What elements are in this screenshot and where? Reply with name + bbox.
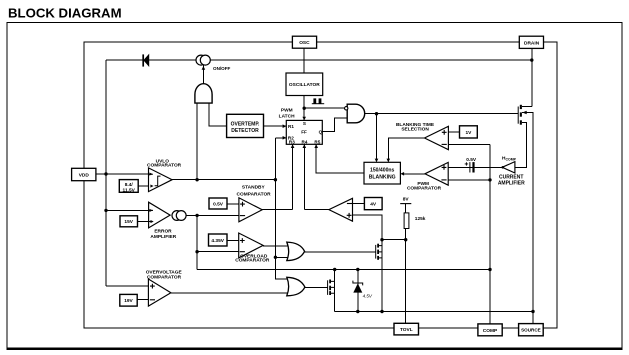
wire AND gate output to power MOSFET gate (y=113.7) [365, 113, 518, 115]
svg-text:ON/OFF: ON/OFF [213, 66, 231, 71]
wire blanking time selection output into blanking block [388, 138, 424, 161]
wire PWM comparator + input through 0.5V capacitor to current amplifier [448, 166, 502, 168]
arrow error amp top input [150, 209, 153, 212]
wire PWM comparator - input to COMP riser [448, 179, 490, 181]
wire VDD startup rail (y=60) from VDD riser to DRAIN column [106, 59, 532, 61]
svg-text:OVERTEMP.: OVERTEMP. [231, 122, 260, 128]
junction Q2 source on source bus [380, 310, 383, 313]
wire PWM comparator output into blanking block [401, 173, 425, 175]
polarity standby + [240, 202, 245, 207]
wire blanking time selection - input to COMP riser [448, 143, 490, 145]
pin box COMP [478, 324, 502, 336]
wire OSC pin to oscillator block [303, 48, 305, 74]
svg-text:AMPLIFIER: AMPLIFIER [150, 234, 176, 240]
main diagram boundary rectangle [84, 42, 557, 328]
wire error amplifier output to standby comparator - input [186, 214, 239, 216]
svg-text:OSC: OSC [299, 40, 310, 46]
junction zener top on COMP bus [356, 268, 359, 271]
wire overload comparator output to OR1 input [263, 245, 289, 247]
wire error amp sense input from VDD riser [106, 209, 149, 211]
arrow UVLO bottom input [150, 185, 153, 188]
junction error amp sense tap [104, 209, 107, 212]
polarity overload - [240, 251, 245, 253]
arrow into blanking from AND [375, 159, 379, 163]
junction gate stub on UVLO bus [195, 178, 198, 181]
junction R2 riser on UVLO bus [274, 178, 277, 181]
wire OR1 lower input tap from UVLO riser [275, 256, 289, 258]
value box 8.4/11.5V [119, 180, 138, 193]
junction Q3 drain on COMP bus [333, 268, 336, 271]
wire VDD net riser x=106 from startup rail down to overvoltage tap [105, 60, 107, 286]
wire VDD box to UVLO inverting input [96, 173, 149, 175]
wire source ground bus (y=311.5) [335, 311, 533, 313]
wire zener branch from COMP bus to source bus [357, 270, 359, 312]
svg-text:15V: 15V [124, 219, 133, 225]
wire OR1 output to Q2 gate [305, 251, 376, 253]
svg-text:ERROR: ERROR [154, 229, 172, 235]
wire UVLO reference input from 8.4/11.5V box [138, 185, 148, 187]
on/off controlled current source (double circle) [196, 55, 210, 65]
wire oscillator node to AND gate inverted input [304, 107, 344, 109]
PWM latch flip-flop box U2 [286, 120, 322, 144]
OR gate U12 [287, 242, 305, 261]
resistor R 125k [404, 213, 409, 229]
wire 4V comparator + input to 125k node [353, 215, 383, 240]
wire Q2 drain-source rail [381, 240, 383, 312]
polarity 4V comparator + [347, 213, 352, 218]
svg-text:19V: 19V [124, 298, 133, 304]
wire power MOSFET drain lead [522, 105, 532, 107]
svg-text:8V: 8V [403, 197, 410, 203]
wire UVLO comparator output bus (y=179.7) [172, 179, 275, 181]
polarity overload + [240, 238, 245, 243]
arrow into optocoupler from gate [202, 66, 206, 70]
svg-text:150/400ns: 150/400ns [370, 168, 395, 174]
svg-text:COMPARATOR: COMPARATOR [235, 258, 270, 264]
polarity overvoltage - [150, 299, 155, 301]
svg-text:0.5V: 0.5V [466, 157, 477, 163]
wire standby comparator output to latch R3 [262, 209, 292, 211]
arrow into latch R2 [283, 136, 287, 140]
junction COMP bus to COMP riser [488, 268, 491, 271]
svg-text:4.35V: 4.35V [211, 238, 224, 244]
wire standby comparator + input from 0.5V box [227, 203, 239, 205]
svg-text:BLANKING: BLANKING [369, 174, 396, 180]
svg-text:R3: R3 [289, 139, 295, 144]
polarity blanking selection + [442, 130, 447, 135]
svg-text:LATCH: LATCH [279, 114, 295, 120]
wire OR2 output to Q3 gate [305, 286, 328, 288]
arrow into blanking from selection comparator [387, 159, 391, 163]
svg-text:0.5V: 0.5V [213, 201, 224, 207]
svg-text:DRAIN: DRAIN [524, 40, 540, 46]
stub error amp top input [149, 209, 153, 211]
wire overvoltage comparator + input from VDD riser [106, 285, 148, 287]
capacitor C 0.5V [470, 162, 474, 172]
svg-text:FF: FF [301, 130, 307, 135]
svg-text:8.4/: 8.4/ [125, 182, 134, 188]
OR gate U13 [287, 277, 305, 296]
junction 125k node at TOVL riser [404, 238, 407, 241]
svg-text:S: S [303, 121, 306, 126]
svg-text:AMPLIFIER: AMPLIFIER [498, 180, 525, 186]
wire COMP net horizontal bus (y=269.5) [197, 269, 490, 271]
arrow into latch R4 [303, 144, 307, 148]
arrow into blanking from PWM comparator [400, 172, 404, 176]
wire blanking block input riser from AND output [376, 114, 378, 162]
wire overvoltage comparator - input from 19V box [137, 299, 148, 301]
supply 8V bar [400, 203, 411, 205]
svg-text:PWM: PWM [281, 108, 293, 114]
svg-text:COMPARATOR: COMPARATOR [147, 274, 182, 280]
junction oscillator node [303, 107, 306, 110]
junction OR1 input tap [274, 256, 277, 259]
overvoltage comparator U8 [148, 279, 171, 306]
polarity PWM - [441, 179, 446, 181]
wire latch Q output to AND gate input [322, 118, 348, 132]
AND gate U3 with inverted input [345, 104, 365, 123]
junction overload input tap [195, 250, 198, 253]
wire overload comparator - input from COMP riser [197, 251, 239, 253]
wire power MOSFET sense lead to current amplifier input [515, 122, 526, 167]
wire latch R2 riser / UVLO net down to OR gates [275, 138, 289, 279]
wire on/off gate right input from overtemp detector [209, 103, 227, 126]
polarity standby - [240, 215, 245, 217]
wire blanking time selection + input from 1V box [448, 131, 459, 133]
svg-text:4V: 4V [370, 202, 377, 208]
arrow UVLO top input [149, 173, 152, 176]
junction source bus to SOURCE riser [531, 310, 534, 313]
wire 125k node horizontal to TOVL riser [382, 239, 406, 241]
junction AND output to blanking riser [375, 112, 378, 115]
wire on/off gate left input stub down to UVLO bus [196, 103, 198, 180]
wire latch R5 riser from blanking block output [316, 144, 364, 173]
transistor Q2 MOSFET [376, 244, 382, 260]
value box 0.5V [209, 198, 227, 209]
junction PWM - input on COMP riser [488, 178, 491, 181]
svg-text:TOVL: TOVL [400, 327, 413, 333]
transistor Q1 power sense MOSFET [518, 105, 527, 125]
polarity overvoltage + [150, 284, 155, 289]
junction startup rail at DRAIN riser [530, 58, 533, 61]
wire latch R4 riser [303, 144, 305, 209]
svg-text:STANDBY: STANDBY [242, 184, 266, 190]
wire oscillator output down to latch S input [303, 96, 305, 121]
stub error amp bottom input [149, 221, 153, 223]
svg-text:COMPARATOR: COMPARATOR [407, 186, 442, 192]
junction 125k node at Q2 drain [380, 238, 383, 241]
wire 8V supply through 125k resistor down to TOVL pin [405, 204, 407, 324]
diode D1 startup (cathode left) [143, 54, 149, 66]
wire on/off gate output up to optocoupler [202, 65, 204, 84]
value box 4V [364, 198, 382, 210]
svg-text:DETECTOR: DETECTOR [231, 128, 259, 134]
overtemp detector block [227, 114, 264, 137]
oscillator block [286, 73, 323, 96]
svg-text:VDD: VDD [79, 173, 90, 179]
junction VDD wire tap [104, 172, 107, 175]
svg-text:11.5V: 11.5V [123, 187, 136, 193]
pin box DRAIN [519, 36, 543, 48]
PWM comparator U10 (pointing left) [425, 162, 448, 185]
svg-text:SELECTION: SELECTION [401, 127, 429, 133]
svg-text:COMP: COMP [483, 328, 498, 334]
svg-text:Q: Q [319, 130, 323, 135]
polarity blanking selection - [442, 143, 447, 145]
standby comparator U6 [239, 198, 262, 222]
wire COMP net riser x=197.1 from error amp output down to bus [196, 215, 198, 269]
arrow into latch R1 [283, 124, 287, 128]
wire 4V comparator output to latch R4 [304, 209, 329, 211]
svg-text:4.5V: 4.5V [363, 294, 373, 299]
wire power MOSFET source lead down to SOURCE pin [522, 113, 533, 324]
blanking time selection comparator U9 (pointing left) [425, 126, 449, 149]
stub UVLO top input [149, 173, 153, 175]
arrow error amp bottom input [151, 220, 154, 223]
value box 1V [460, 126, 478, 138]
svg-text:COMPARATOR: COMPARATOR [237, 191, 272, 197]
value box 15V [120, 216, 138, 227]
on/off AND gate (pointing up) [195, 84, 212, 103]
UVLO comparator U4 [149, 168, 173, 192]
svg-text:OSCILLATOR: OSCILLATOR [289, 82, 320, 88]
arrow into latch R3 [291, 144, 295, 148]
clock waveform glyph [312, 98, 324, 103]
wire DRAIN pin riser [531, 48, 533, 107]
svg-text:BLOCK DIAGRAM: BLOCK DIAGRAM [8, 6, 122, 21]
junction zener bottom on source bus [356, 310, 359, 313]
wire 4V comparator - input from 4V box [353, 202, 365, 204]
pin box SOURCE [519, 324, 544, 336]
pin box VDD [72, 168, 96, 180]
150/400ns blanking block [364, 162, 400, 184]
svg-text:COMPARATOR: COMPARATOR [147, 163, 182, 169]
value box 4.35V [209, 234, 228, 246]
polarity PWM + [442, 165, 447, 170]
wire Q3 drain-source rail [334, 270, 336, 312]
pin box TOVL [394, 323, 419, 335]
error amplifier U5 [149, 202, 171, 228]
wire overvoltage comparator output to OR2 lower input [171, 292, 290, 294]
4V comparator U14 (pointing left) [329, 198, 353, 221]
overload comparator U7 [239, 233, 263, 258]
pin box OSC [292, 36, 316, 48]
arrow into latch S [302, 117, 306, 121]
svg-text:R5: R5 [314, 139, 320, 144]
arrow into latch R5 [314, 144, 318, 148]
wire error amp reference input from 15V box [138, 221, 149, 223]
polarity 4V comparator - [347, 203, 352, 205]
svg-text:125k: 125k [415, 216, 426, 222]
current amplifier U11 (pointing left) [502, 162, 515, 173]
wire overtemp detector output to latch R1 [262, 125, 287, 127]
junction current amplifier output node [502, 166, 505, 169]
wire overload comparator + input from 4.35V box [227, 239, 239, 241]
svg-text:SOURCE: SOURCE [521, 328, 541, 333]
svg-text:R1: R1 [288, 124, 294, 129]
value box 19V [120, 294, 137, 306]
wire latch R3 riser [292, 144, 294, 209]
junction error amp output node [195, 214, 198, 217]
error amplifier output current source (double circle) [172, 211, 186, 221]
svg-text:1V: 1V [465, 130, 472, 136]
polarity capacitor + [465, 162, 468, 165]
transistor Q3 MOSFET [328, 280, 335, 296]
wire COMP pin riser x=490 [489, 144, 491, 324]
zener diode DZ 4.5V [353, 281, 363, 293]
svg-text:R4: R4 [302, 139, 308, 144]
